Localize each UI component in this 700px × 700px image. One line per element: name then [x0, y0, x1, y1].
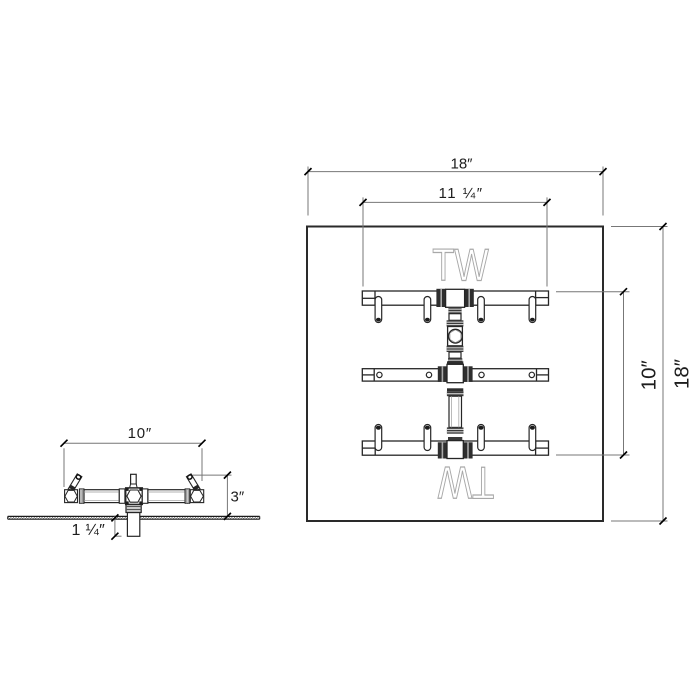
center cross fitting block [126, 488, 143, 505]
bottom tee fitting [438, 441, 473, 459]
right coupler ring [185, 489, 190, 503]
svg-text:TW: TW [438, 457, 495, 508]
bottom bar jet 3 [478, 425, 485, 451]
riser mid segment (hub to cross) [447, 346, 464, 365]
plate (18 x 18 square, top view) [307, 227, 603, 522]
bottom bar jet 1 [375, 425, 382, 451]
middle cross fitting [438, 361, 473, 391]
side view drop pipe below plate [126, 504, 141, 537]
dimension 10 inch right [556, 288, 661, 458]
side view center vertical jet [129, 474, 137, 489]
middle bar orifice hole 2 [426, 372, 431, 377]
dimension 10 inch side view [61, 425, 206, 487]
right pipe [148, 490, 185, 503]
svg-text:18″: 18″ [451, 155, 474, 172]
svg-text:11 ¼″: 11 ¼″ [438, 185, 483, 202]
svg-text:TW: TW [432, 240, 489, 291]
side view mounting plate (hatched) [8, 516, 260, 519]
top bar jet 2 [424, 297, 431, 323]
bottom bar jet 4 [529, 425, 536, 451]
dimension 18 inch top [305, 155, 607, 215]
side view left angled jet [68, 474, 82, 492]
top bar jet 3 [478, 297, 485, 323]
bottom bar jet 2 [424, 425, 431, 451]
left coupler ring [79, 489, 84, 503]
dimension 1 1/4 inch side view [72, 514, 122, 539]
riser upper segment (tee to hub) [447, 307, 464, 326]
middle bar orifice hole 1 [377, 372, 382, 377]
top bar jet 1 [375, 297, 382, 323]
bottom burner bar [362, 441, 548, 455]
top burner bar [362, 291, 548, 305]
hub (center air mixer with sight circle) [448, 327, 463, 346]
top tee fitting [436, 289, 473, 308]
dimension 3 inch side view [193, 472, 245, 520]
svg-text:10″: 10″ [638, 360, 661, 390]
dimension 18 inch right [611, 223, 694, 525]
left pipe [84, 490, 119, 503]
middle bar orifice hole 3 [479, 372, 484, 377]
right end square + hex nut [190, 490, 203, 503]
top bar jet 4 [529, 297, 536, 323]
riser lower segment (cross to bottom tee) [447, 391, 464, 440]
middle burner bar [362, 369, 548, 381]
svg-text:10″: 10″ [128, 425, 152, 442]
side view right angled jet [186, 474, 200, 492]
svg-text:1 ¼″: 1 ¼″ [72, 522, 106, 539]
svg-text:3″: 3″ [231, 489, 245, 506]
svg-text:18″: 18″ [671, 359, 694, 389]
dimension 11 1/4 inch [360, 185, 551, 286]
middle bar orifice hole 4 [529, 372, 534, 377]
coupler left of center [119, 489, 125, 503]
coupler right of center [142, 489, 148, 503]
left end square + hex nut [65, 490, 78, 503]
side view burner pipe assembly [65, 488, 204, 505]
